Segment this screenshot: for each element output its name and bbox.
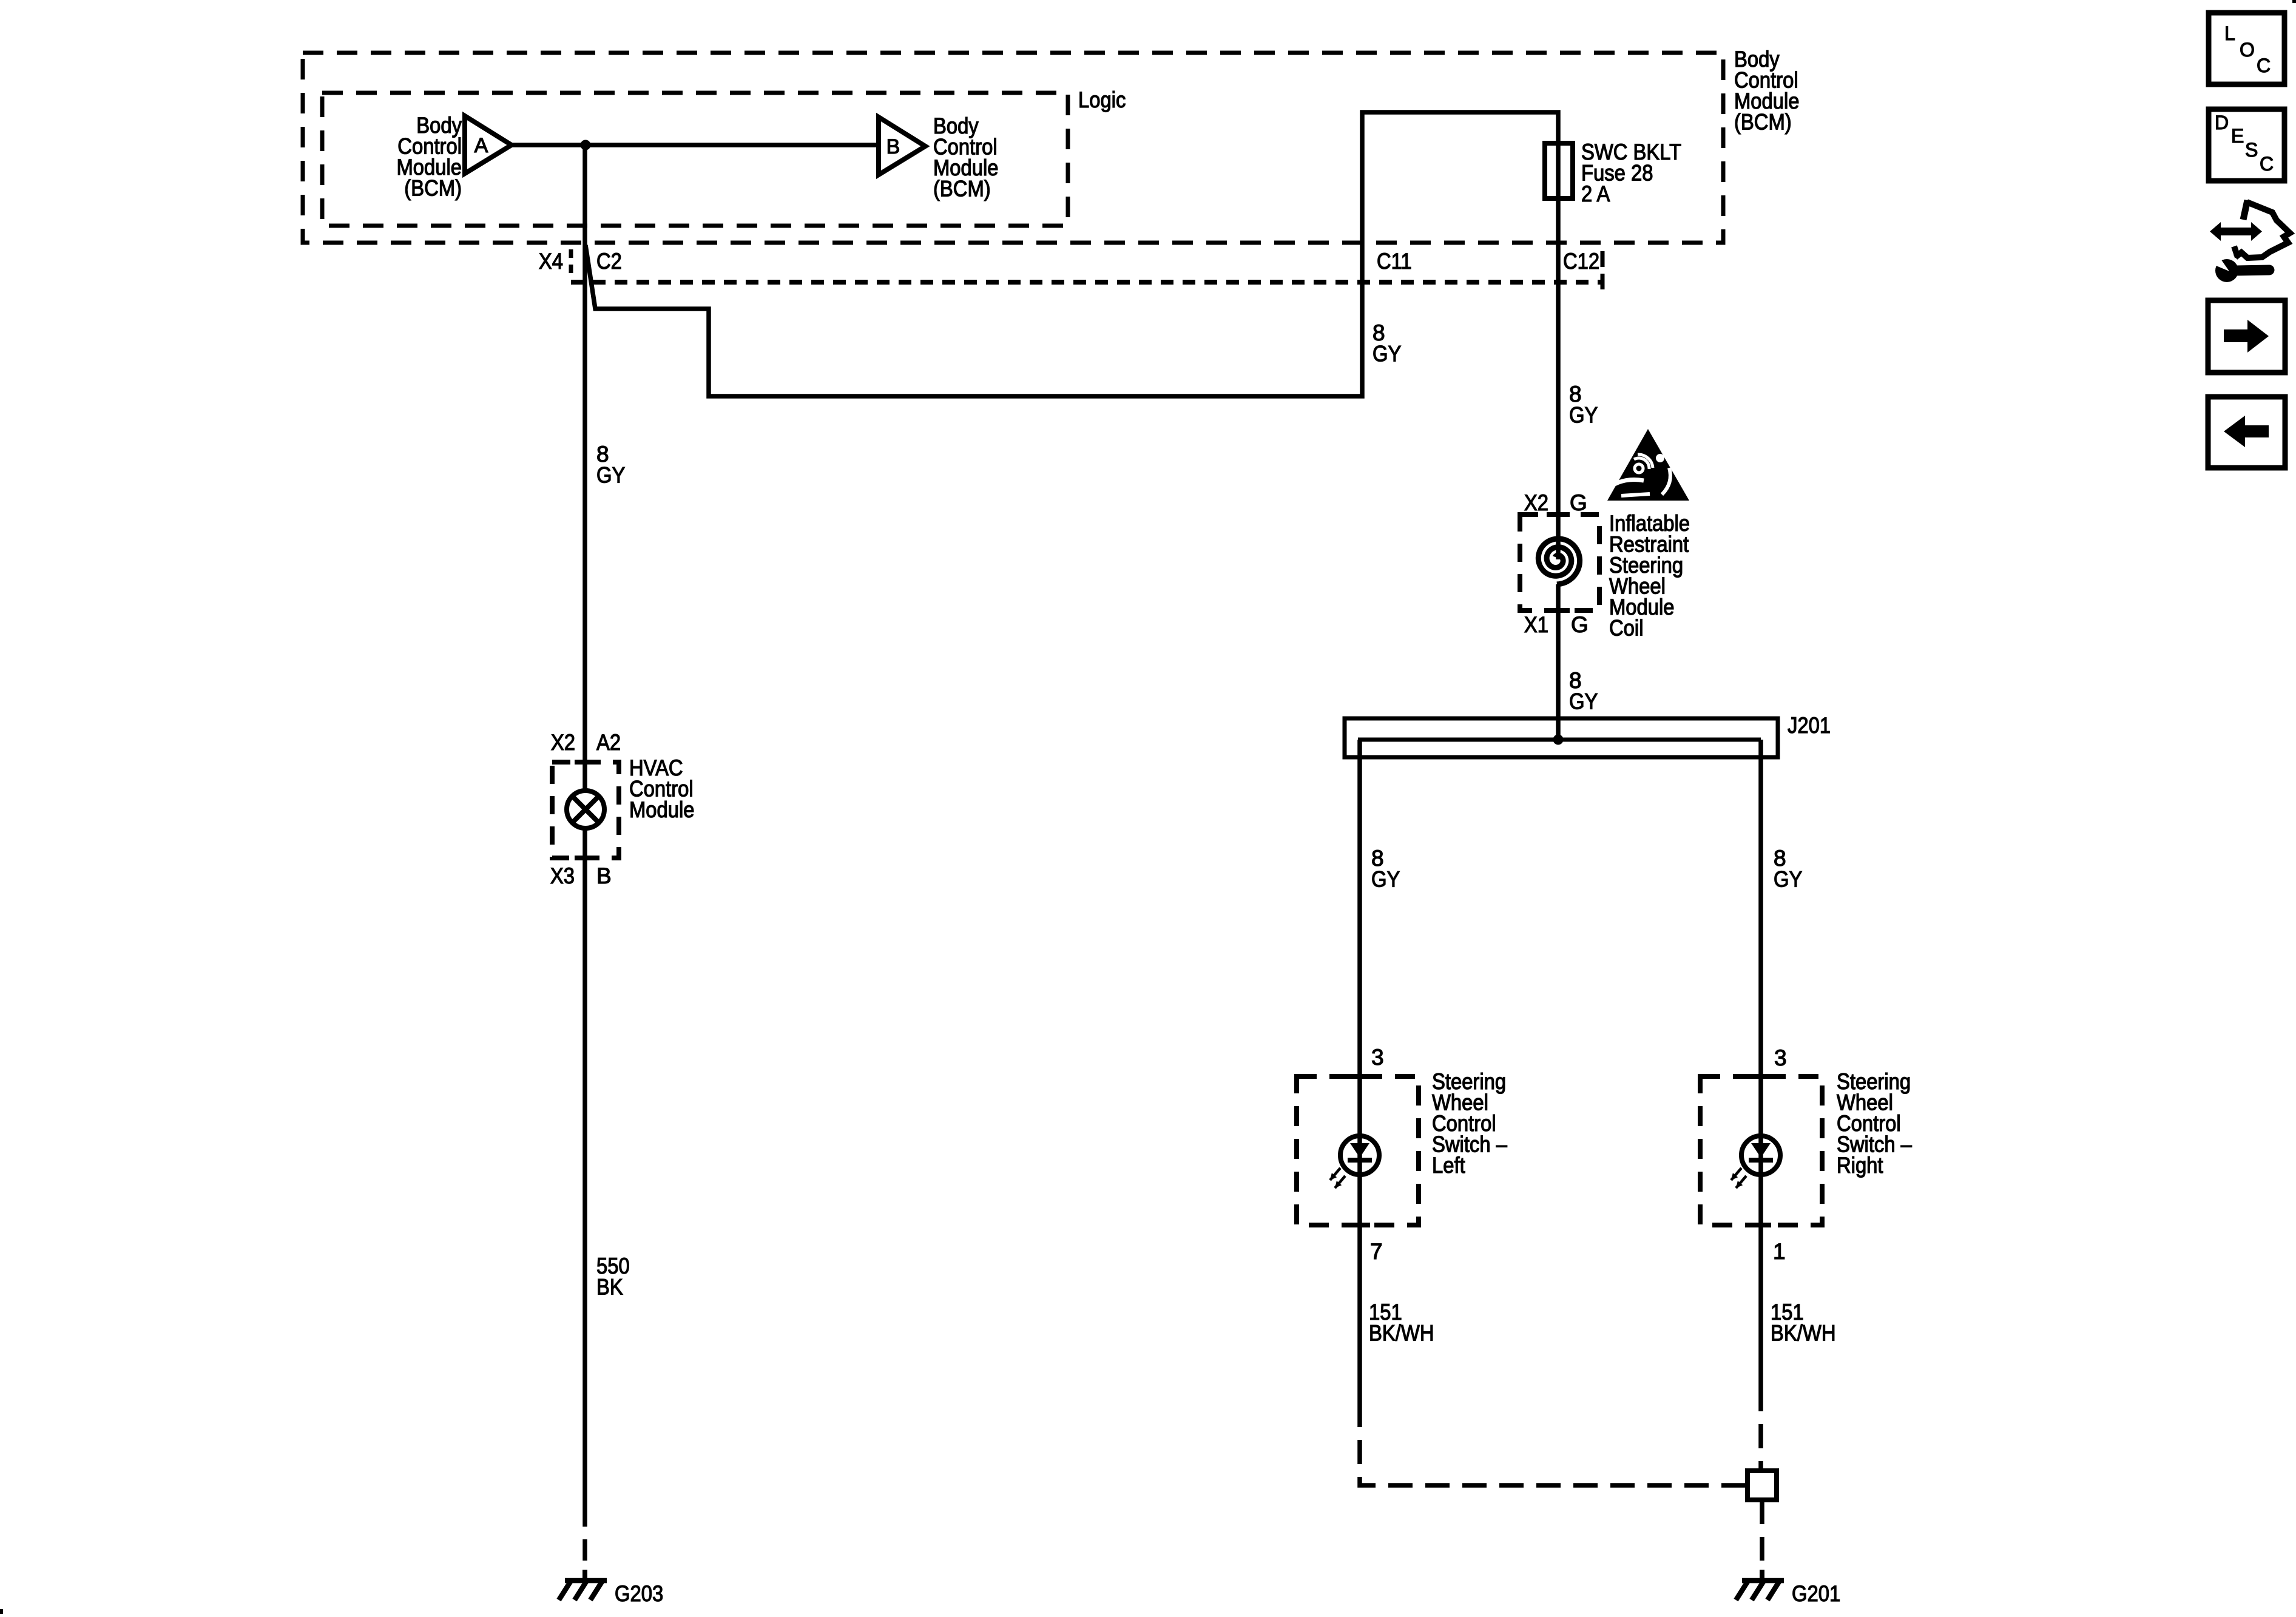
svg-text:A2: A2 <box>596 730 621 755</box>
wire jog from C2 connector to BCM C11 feed <box>586 112 1558 396</box>
buffer/driver A inside BCM (triangle) <box>465 116 512 174</box>
svg-text:X3: X3 <box>550 863 575 888</box>
wire from buffer A output to buffer B input <box>512 143 879 147</box>
wire 550 BK from HVAC to ground G203 (solid) <box>582 858 587 1502</box>
svg-text:E: E <box>2231 125 2244 147</box>
svg-text:(BCM): (BCM) <box>404 176 462 201</box>
dashed wire to ground G203 <box>582 1502 587 1561</box>
component box HVAC Control Module (dashed) <box>552 762 619 858</box>
icon box DESC <box>2209 109 2284 181</box>
svg-text:G: G <box>1571 612 1589 637</box>
svg-text:Coil: Coil <box>1609 616 1644 641</box>
svg-text:GY: GY <box>1569 403 1598 428</box>
icon wiring schematics (double arrow with connector outline and wrench) <box>2210 222 2262 241</box>
module box U1 Body Control Module (BCM) outer dashed boundary <box>303 53 1723 243</box>
dashed wire from splice to ground G201 <box>1760 1500 1764 1561</box>
icon box forward arrow <box>2208 300 2285 373</box>
connector boundary dotted line X4/C2 C11/C12 <box>571 280 1602 285</box>
wire 8 GY from coil to J201 <box>1556 584 1561 740</box>
component Steering Wheel Control Switch - Left (dashed box with LED) <box>1297 1076 1419 1225</box>
svg-text:S: S <box>2245 139 2258 161</box>
svg-text:(BCM): (BCM) <box>1734 110 1792 135</box>
wire segment from lamp to HVAC box bottom <box>582 827 587 858</box>
svg-text:C11: C11 <box>1377 249 1412 274</box>
svg-text:B: B <box>596 863 612 888</box>
svg-text:C: C <box>2257 55 2271 76</box>
svg-text:O: O <box>2240 39 2255 61</box>
svg-text:2 A: 2 A <box>1581 181 1610 206</box>
ground symbol G203 <box>582 1570 587 1583</box>
svg-text:Module: Module <box>629 797 695 822</box>
fuse F1 SWC BKLT Fuse 28 2A (rectangle symbol) <box>1545 143 1573 198</box>
svg-text:BK/WH: BK/WH <box>1771 1321 1836 1346</box>
corner artifact bottom left <box>0 1609 3 1614</box>
wire 8 GY from BCM logic junction down to HVAC control module <box>582 145 587 792</box>
component Steering Wheel Control Switch - Right (dashed box with LED) <box>1700 1076 1822 1225</box>
svg-text:Left: Left <box>1432 1153 1465 1178</box>
svg-text:GY: GY <box>1373 342 1401 366</box>
wire 8 GY from J201 to left steering wheel control switch <box>1357 740 1362 1403</box>
svg-text:B: B <box>886 135 900 158</box>
corner artifact top right <box>2292 0 2296 3</box>
svg-text:C: C <box>2260 153 2274 175</box>
svg-text:G201: G201 <box>1792 1581 1840 1606</box>
svg-text:G: G <box>1570 490 1587 515</box>
svg-text:X2: X2 <box>551 730 575 755</box>
buffer/receiver B inside BCM (triangle) <box>879 117 925 175</box>
svg-text:(BCM): (BCM) <box>933 177 991 201</box>
tick top of HVAC box <box>575 760 596 765</box>
dashed continuation of left 151 BK/WH wire <box>1360 1403 1745 1485</box>
svg-text:Logic: Logic <box>1078 87 1126 112</box>
junction node dot on A-B wire <box>581 140 591 150</box>
svg-text:3: 3 <box>1371 1045 1384 1070</box>
svg-text:7: 7 <box>1370 1239 1383 1264</box>
svg-text:BK/WH: BK/WH <box>1369 1321 1434 1346</box>
svg-text:X4: X4 <box>539 249 563 274</box>
svg-text:3: 3 <box>1774 1045 1787 1070</box>
component box Inflatable Restraint Steering Wheel Module Coil (dashed) <box>1520 515 1599 610</box>
svg-text:1: 1 <box>1773 1239 1786 1264</box>
svg-text:D: D <box>2215 112 2229 133</box>
icon box LOC <box>2209 13 2284 84</box>
svg-text:A: A <box>474 134 488 157</box>
svg-text:G203: G203 <box>615 1581 663 1606</box>
junction node dot on J201 bus <box>1553 735 1564 745</box>
svg-text:C12: C12 <box>1563 249 1599 274</box>
splice connector square S1 <box>1747 1471 1777 1500</box>
connector tick between X4 and C2 <box>569 249 573 277</box>
svg-text:GY: GY <box>596 463 625 488</box>
SIR airbag warning triangle icon <box>1607 429 1689 501</box>
splice pack J201 internal bus bar <box>1358 738 1761 742</box>
icon box back arrow <box>2208 397 2285 468</box>
coil spiral symbol <box>1538 539 1579 584</box>
svg-text:C2: C2 <box>596 249 622 274</box>
svg-text:GY: GY <box>1371 867 1400 892</box>
splice pack J201 outer outline <box>1345 718 1778 757</box>
wire 8 GY from fuse down to SIR coil <box>1556 198 1561 559</box>
tick bottom of HVAC box <box>575 856 596 860</box>
svg-text:L: L <box>2224 22 2235 44</box>
svg-text:GY: GY <box>1774 867 1802 892</box>
svg-text:GY: GY <box>1569 689 1598 714</box>
svg-text:Right: Right <box>1837 1153 1883 1178</box>
lamp symbol inside HVAC control module <box>567 791 604 828</box>
svg-text:BK: BK <box>596 1275 623 1300</box>
svg-text:X2: X2 <box>1524 490 1548 515</box>
wire 8 GY from J201 to right steering wheel control switch <box>1758 740 1763 1387</box>
logic sub-box inside BCM (dashed) <box>322 93 1068 226</box>
svg-text:X1: X1 <box>1524 612 1548 637</box>
connector tick right of C12 <box>1601 251 1605 290</box>
ground symbol G201 <box>1760 1570 1764 1583</box>
tick bottom of coil box <box>1547 608 1570 613</box>
tick top of coil box <box>1547 512 1570 517</box>
svg-text:J201: J201 <box>1788 713 1831 738</box>
dashed continuation of right 151 BK/WH wire into splice <box>1758 1387 1763 1470</box>
